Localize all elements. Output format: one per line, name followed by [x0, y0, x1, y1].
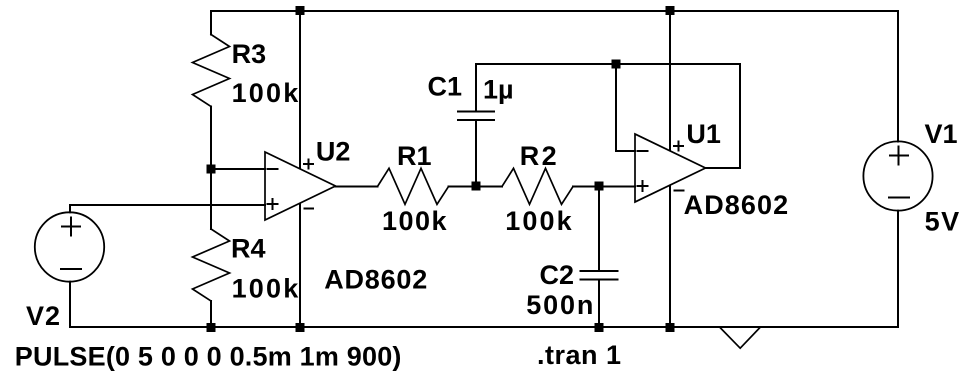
svg-text:1µ: 1µ	[483, 75, 514, 105]
svg-text:C1: C1	[428, 72, 463, 102]
svg-text:R3: R3	[232, 39, 267, 69]
svg-text:100k: 100k	[505, 206, 573, 236]
node R1-R2-C1 junction	[472, 182, 481, 191]
node U1 V- ground junction	[666, 323, 675, 332]
svg-text:AD8602: AD8602	[324, 265, 428, 295]
wire feedback to U1 inverting input	[616, 150, 635, 152]
node top rail / U2 V+ junction	[296, 6, 305, 15]
svg-text:100k: 100k	[382, 206, 448, 236]
svg-text:PULSE(0 5 0 0 0 0.5m 1m 900): PULSE(0 5 0 0 0 0.5m 1m 900)	[15, 342, 402, 372]
node R2-C2-U1 junction	[595, 182, 604, 191]
capacitor C1	[458, 64, 494, 187]
svg-text:U1: U1	[686, 119, 721, 149]
svg-text:R4: R4	[231, 234, 266, 264]
wire U1 feedback riser	[739, 64, 741, 168]
svg-text:AD8602: AD8602	[684, 190, 790, 220]
wire bottom rail	[70, 326, 898, 328]
wire U2 inverting input	[211, 168, 265, 170]
resistor R3	[193, 11, 230, 169]
wire U1 output	[706, 167, 741, 169]
wire U2 output	[336, 186, 378, 188]
wire feedback drop	[615, 64, 617, 151]
capacitor C2	[581, 187, 618, 328]
svg-text:V2: V2	[26, 301, 61, 331]
node R4-ground rail junction	[207, 323, 216, 332]
ground	[720, 328, 760, 349]
node U2 V- ground junction	[296, 323, 305, 332]
wire U1 V+ supply	[669, 11, 671, 150]
wire U2 V- supply	[299, 204, 301, 327]
wire U1 V- supply	[669, 186, 671, 327]
op-amp U2	[265, 152, 336, 220]
svg-text:R2: R2	[520, 141, 560, 171]
node top rail / U1 V+ junction	[666, 6, 675, 15]
svg-text:100k: 100k	[232, 274, 301, 304]
node C2 ground junction	[595, 323, 604, 332]
voltage source V2	[35, 205, 104, 327]
svg-text:V1: V1	[925, 119, 958, 149]
resistor R2	[502, 168, 573, 204]
svg-text:100k: 100k	[232, 78, 301, 108]
op-amp U1	[635, 134, 706, 202]
wire C1 top to feedback	[476, 63, 740, 65]
node C1-feedback junction	[612, 60, 621, 69]
resistor R4	[193, 169, 230, 327]
svg-text:.tran 1: .tran 1	[537, 340, 622, 370]
node R3-R4 divider junction	[207, 165, 216, 174]
wire top rail	[211, 10, 898, 12]
wire R2 to U1 noninverting input	[573, 186, 635, 188]
wire R1 to node	[449, 186, 503, 188]
svg-text:U2: U2	[316, 137, 351, 167]
svg-text:5V: 5V	[925, 207, 961, 237]
svg-text:R1: R1	[397, 141, 432, 171]
wire V2 to U2 noninverting input	[70, 204, 265, 206]
voltage source V1	[863, 11, 932, 327]
wire U2 V+ supply	[299, 11, 301, 168]
resistor R1	[378, 168, 449, 204]
svg-text:500n: 500n	[526, 290, 595, 320]
svg-text:C2: C2	[540, 260, 575, 290]
